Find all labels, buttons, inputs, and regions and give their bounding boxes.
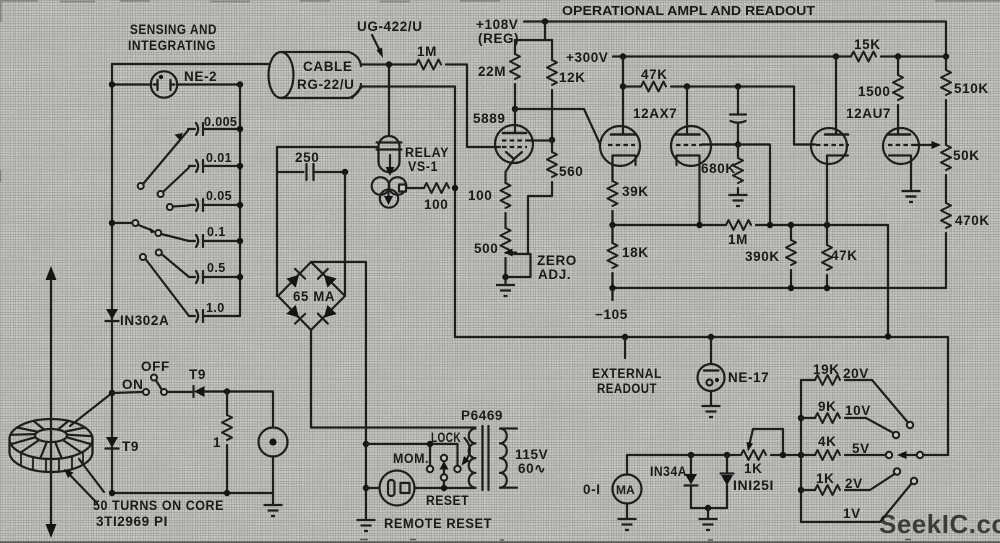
rectifier bridge 65MA xyxy=(278,262,345,330)
resistor R 1 xyxy=(222,392,232,494)
wire: to 12AU7 grid xyxy=(794,87,815,145)
bridge diode bottom-left xyxy=(286,305,305,324)
node: 9K row xyxy=(798,415,804,421)
svg-text:ZERO: ZERO xyxy=(537,253,577,268)
wire: NE-2 row xyxy=(112,83,240,85)
node: cathode follower tap xyxy=(885,333,891,339)
wire: diode ground stub xyxy=(707,508,709,519)
transformer P6469 primary xyxy=(469,429,476,488)
svg-text:510K: 510K xyxy=(954,81,989,96)
node: reset bus lower junction xyxy=(363,485,369,491)
wire: bridge bottom to transformer xyxy=(311,330,476,428)
switch contact LOCK xyxy=(454,466,460,472)
svg-text:MA: MA xyxy=(616,483,635,497)
node: 0.005 bus junction xyxy=(237,126,243,132)
wire: 0.05 arm xyxy=(173,206,189,207)
wire: capacitor right bus xyxy=(239,85,241,317)
range selector wiper arrow xyxy=(897,451,917,459)
node: +108V tap xyxy=(542,18,548,24)
section label: SENSING AND INTEGRATING xyxy=(128,22,217,53)
svg-text:4K: 4K xyxy=(818,434,836,449)
resistor 1M (input) xyxy=(416,60,441,70)
capacitor (coupling) xyxy=(730,87,746,145)
meter M 0-1 MA xyxy=(613,455,642,519)
50K wiper arrow xyxy=(914,141,941,149)
wire: cable center conductor to 1M xyxy=(361,63,416,65)
svg-text:T9: T9 xyxy=(122,439,139,454)
svg-text:0.1: 0.1 xyxy=(207,225,226,239)
cable RG-22/U body xyxy=(269,52,362,98)
resistor 1M (feedback) xyxy=(726,220,751,230)
1K wiper loop xyxy=(747,429,784,455)
vacuum tube 12AU7 section B xyxy=(883,128,919,190)
wire: -105 stub xyxy=(611,288,613,300)
svg-text:UG-422/U: UG-422/U xyxy=(357,19,423,34)
svg-text:0.05: 0.05 xyxy=(206,189,232,203)
node: pot bottom junction xyxy=(502,274,508,280)
bridge diode top-right xyxy=(318,269,337,288)
switch contact 2V xyxy=(894,468,900,474)
node: -105 390K xyxy=(788,285,794,291)
wire: grid junction to 1M feedback xyxy=(738,145,770,226)
node: bottom rail R1 xyxy=(224,490,230,496)
wire: bridge top to reset bus xyxy=(311,262,366,520)
wire: 0.005 arm xyxy=(143,131,188,185)
relay VS-1 xyxy=(372,136,407,208)
node: 0.05 bus junction xyxy=(237,202,243,208)
capacitor C 0.05 xyxy=(189,199,240,211)
wire: ZERO ADJ loop box xyxy=(506,254,531,277)
zero adj wiper arrow xyxy=(504,249,516,257)
svg-text:RELAY: RELAY xyxy=(405,145,449,160)
svg-text:IN302A: IN302A xyxy=(120,313,169,328)
svg-text:INTEGRATING: INTEGRATING xyxy=(128,38,216,53)
node: IN1251 top xyxy=(724,452,730,458)
resistor 22M xyxy=(510,40,520,109)
remote reset connector P1 xyxy=(380,471,415,506)
potentiometer 1K (cal) xyxy=(741,450,766,460)
switch S1 wiper arrow xyxy=(139,225,157,233)
resistor 4K xyxy=(801,450,886,460)
wire: 250 box left xyxy=(276,147,278,296)
svg-text:0.005: 0.005 xyxy=(204,115,237,129)
svg-text:15K: 15K xyxy=(854,37,881,52)
wire: 0.1 arm xyxy=(161,234,189,241)
node: reset bus upper junction xyxy=(363,441,369,447)
svg-text:MOM.: MOM. xyxy=(393,451,429,466)
wire: +108V drop and split xyxy=(515,22,552,41)
switch contact wiper bottom xyxy=(441,474,447,480)
wire: readout bus xyxy=(455,337,948,455)
svg-text:0-I: 0-I xyxy=(583,482,601,497)
node: NE-2 row left junction xyxy=(109,81,115,87)
capacitor C 0.1 xyxy=(189,235,240,247)
svg-text:ADJ.: ADJ. xyxy=(538,267,571,282)
wire: lamp to ground xyxy=(272,457,274,506)
node: 47K left xyxy=(620,83,626,89)
switch contact MOM xyxy=(427,466,433,472)
wire: 250 junction to bridge right xyxy=(344,172,346,296)
resistor 47K (cathode) xyxy=(822,225,832,288)
svg-text:1M: 1M xyxy=(417,44,437,59)
wire: relay coil drop xyxy=(388,65,390,137)
wire: left vertical bus xyxy=(111,64,113,493)
svg-text:5889: 5889 xyxy=(473,111,505,126)
node: 1M feedback junction xyxy=(767,222,773,228)
node: 15K left xyxy=(833,53,839,59)
wire: 1.0 arm xyxy=(146,259,190,316)
node: 39K/18K junction xyxy=(609,222,615,228)
svg-text:3TI2969 PI: 3TI2969 PI xyxy=(96,514,168,529)
node: 1K row xyxy=(798,487,804,493)
svg-text:NE-17: NE-17 xyxy=(728,370,769,385)
node: +300V tap xyxy=(620,53,626,59)
node: 390K top xyxy=(788,222,794,228)
svg-text:390K: 390K xyxy=(745,249,780,264)
svg-text:60∿: 60∿ xyxy=(518,461,546,476)
switch contact 10V xyxy=(893,432,899,438)
leader arrow: 50 TURNS ON CORE xyxy=(64,469,97,503)
svg-text:REMOTE RESET: REMOTE RESET xyxy=(384,516,492,531)
switch contact: common xyxy=(132,220,138,226)
indicator lamp/jack xyxy=(259,428,288,457)
svg-text:250: 250 xyxy=(295,150,319,165)
ground (zero adj) xyxy=(496,285,515,296)
svg-text:INI25I: INI25I xyxy=(733,478,774,493)
svg-text:OFF: OFF xyxy=(141,359,170,374)
wire: cable shield to bus xyxy=(352,87,455,189)
svg-text:READOUT: READOUT xyxy=(597,381,657,396)
resistor 100 (relay) xyxy=(424,183,449,193)
svg-text:0.01: 0.01 xyxy=(206,151,232,165)
node: diode rail ground xyxy=(705,505,711,511)
vacuum tube 12AU7 section A xyxy=(811,128,849,225)
potentiometer 500 xyxy=(501,228,511,277)
node: coupling cap junction xyxy=(735,83,741,89)
svg-text:39K: 39K xyxy=(622,184,649,199)
svg-text:560: 560 xyxy=(559,164,583,179)
node: capacitor bus top junction xyxy=(237,81,243,87)
wire: 12AX7 plate drop xyxy=(622,57,624,134)
capacitor C 0.01 xyxy=(189,160,240,172)
vacuum tube 5889 xyxy=(495,109,552,183)
svg-text:50 TURNS ON CORE: 50 TURNS ON CORE xyxy=(93,498,224,513)
svg-text:47K: 47K xyxy=(641,67,668,82)
svg-text:470K: 470K xyxy=(955,213,990,228)
wire: -105 rail xyxy=(613,287,947,289)
node: 0.5 bus junction xyxy=(237,274,243,280)
lamp NE-2 xyxy=(151,71,177,97)
node: 5889 plate junction xyxy=(512,106,518,112)
switch contact: 1.0 xyxy=(140,254,146,260)
transformer core xyxy=(483,426,489,490)
diode IN1251 xyxy=(721,455,734,508)
node: ladder mid tap xyxy=(798,452,804,458)
diode IN302A xyxy=(106,309,119,321)
switch contact: 0.005 xyxy=(138,183,144,189)
wire: ON feed xyxy=(112,392,143,393)
wire: pot ground stub xyxy=(504,277,506,285)
svg-text:−105: −105 xyxy=(595,307,628,322)
wire: +300V rail xyxy=(613,55,946,57)
svg-text:+108V: +108V xyxy=(476,17,518,32)
switch contact 20V xyxy=(907,422,913,428)
wire: right plate drop xyxy=(686,87,688,134)
wire: 0.01 arm xyxy=(163,168,189,193)
node: 250 output junction xyxy=(342,169,348,175)
switch contact 5V xyxy=(886,452,892,458)
wire: toroid to bottom rail xyxy=(79,459,104,492)
capacitor C 0.5 xyxy=(189,271,240,283)
wire: top horizontal to cable xyxy=(112,63,268,65)
wire: rail to connector xyxy=(366,487,380,489)
svg-text:19K: 19K xyxy=(813,362,840,377)
switch contact: 0.01 xyxy=(158,191,164,197)
node: external readout tap xyxy=(622,334,628,340)
svg-text:0.5: 0.5 xyxy=(207,261,226,275)
svg-text:1M: 1M xyxy=(728,232,748,247)
svg-text:12K: 12K xyxy=(559,70,586,85)
capacitor 250 xyxy=(277,164,345,180)
svg-text:1K: 1K xyxy=(744,461,762,476)
svg-text:ON: ON xyxy=(122,377,143,392)
resistor 100 (cathode) xyxy=(501,183,511,228)
ground (meter) xyxy=(618,519,637,530)
svg-text:P6469: P6469 xyxy=(461,408,503,423)
diode IN34A xyxy=(685,455,698,508)
wire: shield bus lower xyxy=(454,188,456,337)
svg-text:1.0: 1.0 xyxy=(206,301,225,315)
wire: bottom rail xyxy=(112,492,273,494)
resistor 510K xyxy=(941,57,951,146)
ground (diodes) xyxy=(699,519,718,530)
switch contact wiper top xyxy=(441,455,447,461)
node: 1K right xyxy=(780,452,786,458)
wire: 1V row xyxy=(801,484,912,523)
node: selector bus junction xyxy=(109,220,115,226)
potentiometer 50K xyxy=(941,145,951,203)
toroid core winding axis arrow (up) xyxy=(46,266,57,538)
resistor 18K xyxy=(608,225,618,288)
node: 0.01 bus junction xyxy=(237,163,243,169)
node: grid/680K junction xyxy=(735,141,741,147)
resistor 9K xyxy=(801,413,894,433)
node: IN34A top xyxy=(688,452,694,458)
node: MOM drop junction xyxy=(427,441,433,447)
svg-text:22M: 22M xyxy=(478,64,506,79)
resistor 390K xyxy=(786,225,796,288)
svg-text:NE-2: NE-2 xyxy=(184,69,217,84)
transformer P6469 secondary xyxy=(500,429,507,488)
wire: +108V top bus xyxy=(524,22,946,57)
switch contact: 0.5 xyxy=(156,250,162,256)
wire: 12AU7 plate A drop xyxy=(835,57,837,135)
reset wiper arrow xyxy=(440,461,449,474)
wire: 5889 plate to 12AX7 grid xyxy=(515,109,600,144)
svg-text:1: 1 xyxy=(213,435,221,450)
svg-text:RESET: RESET xyxy=(426,493,469,508)
node: bottom rail left xyxy=(109,490,115,496)
svg-text:47K: 47K xyxy=(831,248,858,263)
diode T9 (shunt on bus) xyxy=(106,437,119,449)
wire: cathode bus (common) xyxy=(613,225,889,337)
svg-text:65 MA: 65 MA xyxy=(293,289,335,304)
edge smudges xyxy=(0,1,1000,182)
resistor 470K xyxy=(941,203,951,288)
node: 12AU7 cathode junction xyxy=(824,222,830,228)
wire: toroid to ON node xyxy=(70,393,112,426)
diode T9 (series) xyxy=(194,386,205,397)
node: ON junction xyxy=(109,390,115,396)
switch S2 arm xyxy=(156,381,163,392)
node: 0.1 bus junction xyxy=(237,238,243,244)
svg-text:1K: 1K xyxy=(816,471,834,486)
switch contact wiper xyxy=(917,452,923,458)
wire: relay contact to 100 xyxy=(406,187,424,189)
resistor 15K xyxy=(851,52,876,62)
vacuum tube 12AX7 section A xyxy=(600,126,640,181)
switch S2 contact ON xyxy=(143,389,149,395)
resistor 1K (range) xyxy=(801,474,895,495)
wire: selector feed from bus xyxy=(112,222,133,224)
resistor 1500 xyxy=(893,57,903,135)
node: 100 to shield bus xyxy=(452,185,458,191)
svg-text:RG-22/U: RG-22/U xyxy=(297,77,354,92)
node: cathode B junction xyxy=(696,222,702,228)
resistor 19K xyxy=(801,375,908,423)
svg-text:5V: 5V xyxy=(852,441,870,456)
bridge diode top-left xyxy=(286,269,305,288)
svg-text:50K: 50K xyxy=(953,148,980,163)
svg-text:12AU7: 12AU7 xyxy=(846,106,891,121)
svg-text:100: 100 xyxy=(424,197,448,212)
resistor 47K (plate) xyxy=(623,82,794,92)
svg-text:100: 100 xyxy=(468,188,492,203)
node: screen junction xyxy=(549,137,555,143)
wire: to MOM contact xyxy=(366,444,458,466)
node: relay tap junction xyxy=(386,61,392,67)
svg-text:1500: 1500 xyxy=(858,84,890,99)
wire: diode bottom rail xyxy=(691,507,727,509)
lamp NE-17 xyxy=(698,337,725,406)
svg-text:SENSING AND: SENSING AND xyxy=(130,22,217,37)
leader arrow UG-422/U xyxy=(372,35,383,58)
wire: meter rail xyxy=(627,454,801,456)
svg-text:20V: 20V xyxy=(843,366,869,381)
svg-text:10V: 10V xyxy=(845,403,871,418)
wire: wiper to readout bus xyxy=(923,454,948,456)
svg-text:680K: 680K xyxy=(701,161,736,176)
switch contact: 0.05 xyxy=(167,204,173,210)
svg-text:SeekIC.com: SeekIC.com xyxy=(879,509,1000,539)
svg-text:EXTERNAL: EXTERNAL xyxy=(592,366,662,381)
ground (bottom-left rail) xyxy=(264,505,283,516)
ground (NE-17) xyxy=(702,406,721,417)
leader arc: LOCK xyxy=(462,438,470,466)
resistor 39K xyxy=(608,181,618,225)
wire: 0.5 arm xyxy=(162,254,190,277)
wire: secondary leads xyxy=(500,429,517,488)
vacuum tube 12AX7 section B xyxy=(671,126,738,225)
svg-text:CABLE: CABLE xyxy=(303,59,353,74)
wire: pole to diode T9 xyxy=(167,391,193,393)
wire: external readout stub xyxy=(624,337,626,358)
resistor 560 xyxy=(528,140,557,254)
svg-text:+300V: +300V xyxy=(566,50,608,65)
node: right plate junction xyxy=(684,83,690,89)
svg-text:9K: 9K xyxy=(818,399,836,414)
switch contact: 0.1 xyxy=(155,230,161,236)
svg-text:115V: 115V xyxy=(515,447,548,462)
wire: 250 box top xyxy=(277,146,378,148)
node: R1 top junction xyxy=(224,388,230,394)
capacitor C 0.005 xyxy=(188,123,240,135)
svg-text:12AX7: 12AX7 xyxy=(633,106,677,121)
wire: diode to lamp corner xyxy=(205,392,274,428)
svg-text:OPERATIONAL AMPL AND READOUT: OPERATIONAL AMPL AND READOUT xyxy=(562,3,815,18)
svg-text:IN34A: IN34A xyxy=(650,464,687,479)
wire: divider ladder bus xyxy=(800,380,802,522)
node: 15K right xyxy=(895,53,901,59)
switch S2 pole contact xyxy=(161,389,167,395)
ground (680K) xyxy=(729,195,748,206)
node: -105 47K xyxy=(824,285,830,291)
node: -105 left xyxy=(609,285,615,291)
svg-text:2V: 2V xyxy=(845,476,863,491)
svg-text:1V: 1V xyxy=(843,506,861,521)
svg-text:(REG): (REG) xyxy=(478,31,519,46)
node: wiper rail junction xyxy=(441,485,447,491)
bridge diode bottom-right xyxy=(318,305,337,324)
ground (reset bus) xyxy=(357,520,376,531)
svg-text:18K: 18K xyxy=(622,245,649,260)
capacitor C 1.0 xyxy=(189,310,240,322)
node: NE-17 tap xyxy=(708,334,714,340)
resistor 680K xyxy=(733,145,743,195)
toroid core T1 xyxy=(10,419,93,472)
wire: wiper to rail xyxy=(443,481,445,489)
svg-text:T9: T9 xyxy=(189,367,206,382)
node: 510K top xyxy=(943,53,949,59)
switch S2 contact OFF xyxy=(151,375,157,381)
wire: connector to coil xyxy=(415,487,476,489)
switch contact 1V xyxy=(911,478,917,484)
wire: 1M to 5889 grid xyxy=(446,65,500,148)
svg-text:VS-1: VS-1 xyxy=(408,159,438,174)
ground (12AU7 cathode B) xyxy=(902,191,921,202)
svg-text:LOCK: LOCK xyxy=(431,430,461,445)
resistor 12K xyxy=(547,40,557,140)
svg-text:500: 500 xyxy=(474,241,498,256)
